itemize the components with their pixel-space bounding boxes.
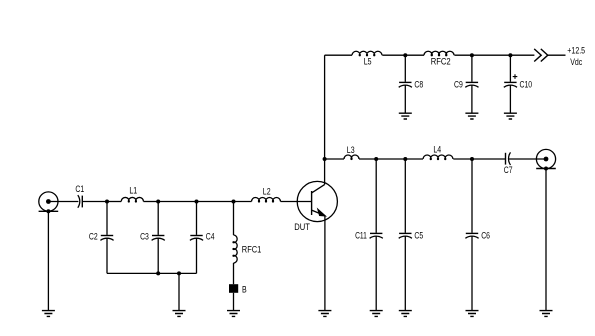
node	[46, 209, 50, 213]
svg-text:C7: C7	[504, 165, 513, 176]
svg-text:C10: C10	[520, 80, 533, 91]
svg-text:RFC2: RFC2	[431, 56, 451, 67]
svg-text:Vdc: Vdc	[570, 57, 582, 68]
svg-text:L4: L4	[433, 144, 441, 155]
wire	[324, 216, 326, 311]
wire	[325, 54, 352, 56]
wire	[405, 158, 423, 160]
wire	[107, 201, 121, 203]
capacitor C5	[399, 231, 423, 242]
ferrite bead B	[229, 284, 247, 295]
wire	[404, 159, 406, 233]
node	[544, 167, 548, 171]
wire	[454, 54, 472, 56]
capacitor C3	[140, 232, 165, 243]
power feed arrow	[534, 49, 548, 62]
node	[403, 157, 407, 161]
inductor L2	[252, 187, 281, 202]
wire	[509, 85, 511, 113]
svg-text:C11: C11	[355, 231, 367, 242]
capacitor C1	[75, 184, 84, 208]
wire	[48, 201, 78, 203]
inductor L1	[121, 186, 143, 202]
svg-text:+12.5: +12.5	[567, 46, 585, 57]
capacitor C2	[89, 232, 114, 243]
node	[156, 200, 160, 204]
svg-text:C3: C3	[140, 232, 149, 243]
svg-text:L3: L3	[347, 145, 355, 156]
wire	[471, 85, 473, 113]
wire	[404, 85, 406, 113]
wire	[325, 158, 344, 160]
wire	[471, 236, 473, 310]
ground	[42, 311, 55, 317]
wire	[376, 158, 405, 160]
svg-text:C6: C6	[481, 231, 490, 242]
capacitor C10	[504, 74, 532, 90]
wire	[453, 158, 472, 160]
svg-text:C8: C8	[414, 80, 423, 91]
svg-text:C4: C4	[206, 232, 215, 243]
inductor RFC1	[233, 235, 261, 263]
wire	[471, 55, 473, 82]
wire	[107, 272, 197, 274]
wire	[196, 238, 198, 273]
wire	[375, 159, 377, 233]
wire	[472, 54, 511, 56]
node	[374, 157, 378, 161]
ground	[504, 113, 517, 119]
wire	[47, 211, 49, 310]
capacitor C4	[190, 232, 215, 243]
wire	[144, 201, 159, 203]
capacitor C6	[465, 231, 490, 242]
wire	[157, 238, 159, 273]
ground	[399, 113, 412, 119]
wire	[158, 201, 196, 203]
wire	[471, 159, 473, 233]
ground	[465, 113, 478, 119]
transistor DUT	[294, 181, 337, 233]
ground	[370, 311, 383, 317]
inductor L5	[352, 51, 382, 67]
node	[470, 53, 474, 57]
wire	[382, 54, 405, 56]
node	[177, 271, 181, 275]
wire	[545, 169, 547, 311]
wire	[359, 158, 376, 160]
ground	[466, 311, 479, 317]
wire	[178, 273, 180, 310]
capacitor C7	[504, 152, 513, 176]
ground	[399, 311, 412, 317]
wire	[472, 158, 506, 160]
node	[470, 157, 474, 161]
wire	[324, 159, 326, 185]
wire	[281, 201, 312, 203]
svg-text:L5: L5	[364, 56, 372, 67]
net +12.5 Vdc	[567, 46, 585, 68]
svg-text:C9: C9	[454, 80, 463, 91]
svg-text:C1: C1	[75, 184, 84, 195]
ground	[173, 311, 186, 317]
wire	[548, 54, 566, 56]
wire	[405, 54, 424, 56]
input connector J1	[39, 192, 59, 211]
wire	[404, 55, 406, 82]
wire	[233, 293, 235, 311]
wire	[375, 236, 377, 310]
wire	[234, 201, 252, 203]
capacitor C9	[454, 80, 479, 91]
svg-text:L2: L2	[263, 187, 271, 198]
wire	[197, 201, 234, 203]
wire	[324, 55, 326, 159]
ground	[318, 311, 331, 317]
inductor RFC2	[424, 51, 454, 67]
wire	[196, 202, 198, 235]
node	[156, 271, 160, 275]
ground	[540, 311, 553, 317]
node	[508, 53, 512, 57]
svg-text:RFC1: RFC1	[242, 245, 261, 256]
capacitor C11	[355, 231, 383, 242]
wire	[157, 202, 159, 235]
node	[195, 200, 199, 204]
wire	[509, 55, 511, 82]
node	[323, 157, 327, 161]
wire	[106, 238, 108, 273]
wire	[508, 158, 546, 160]
node	[105, 200, 109, 204]
node	[403, 53, 407, 57]
svg-text:C2: C2	[89, 232, 98, 243]
svg-text:C5: C5	[414, 231, 423, 242]
svg-text:L1: L1	[129, 186, 137, 197]
svg-text:DUT: DUT	[294, 222, 310, 233]
wire	[233, 202, 235, 236]
capacitor C8	[399, 80, 423, 91]
output connector J2	[536, 149, 556, 168]
inductor L3	[344, 145, 359, 160]
svg-text:B: B	[242, 284, 247, 295]
node	[232, 200, 236, 204]
wire	[233, 263, 235, 284]
wire	[106, 202, 108, 235]
wire	[82, 201, 107, 203]
wire	[404, 236, 406, 310]
wire	[510, 54, 534, 56]
inductor L4	[423, 144, 453, 159]
ground	[227, 311, 240, 317]
